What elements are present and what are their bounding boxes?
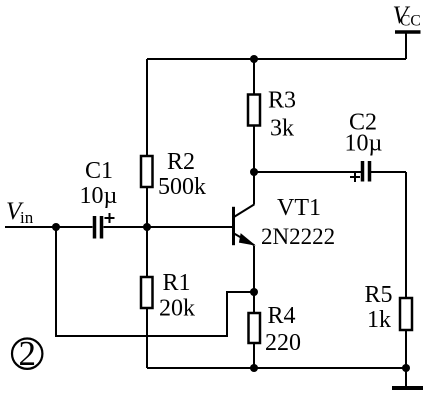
wire top rail VCC <box>147 58 406 60</box>
svg-text:500k: 500k <box>158 174 206 200</box>
node emitter bottom junction <box>250 364 258 372</box>
wire input base line <box>5 226 93 228</box>
svg-text:220: 220 <box>265 330 301 356</box>
ground <box>392 386 423 390</box>
svg-text:2N2222: 2N2222 <box>261 224 335 249</box>
resistor R4 <box>249 313 261 343</box>
wire bottom rail <box>147 367 406 369</box>
wire right branch R5 vertical <box>405 172 407 368</box>
svg-text:R1: R1 <box>163 270 191 296</box>
svg-text:10µ: 10µ <box>80 183 118 209</box>
resistor R3 <box>248 95 260 126</box>
svg-text:CC: CC <box>400 13 421 30</box>
svg-text:1k: 1k <box>367 307 391 333</box>
capacitor C1 plus sign <box>105 213 115 223</box>
svg-text:R5: R5 <box>365 282 393 308</box>
svg-text:in: in <box>20 208 34 227</box>
capacitor C2 plus sign <box>350 172 360 182</box>
wire R3 collector branch <box>253 59 255 204</box>
capacitor C1 <box>95 216 102 239</box>
svg-text:10µ: 10µ <box>345 131 383 157</box>
resistor R2 <box>141 156 153 187</box>
resistor R5 <box>400 298 412 330</box>
wire base line after C1 <box>104 226 234 228</box>
svg-text:R2: R2 <box>167 149 195 175</box>
wire VCC stub <box>405 32 407 59</box>
svg-text:C1: C1 <box>85 158 113 184</box>
node top rail / R3 junction <box>250 55 258 63</box>
svg-text:R4: R4 <box>268 303 296 329</box>
transistor Q1 VT1 <box>234 204 255 245</box>
node R5 ground junction <box>402 364 410 372</box>
resistor R1 <box>141 277 153 308</box>
wire emitter branch R4 <box>253 246 255 368</box>
capacitor C2 <box>363 161 370 182</box>
node collector junction <box>250 168 258 176</box>
node emitter junction <box>250 288 258 296</box>
svg-text:3k: 3k <box>270 116 294 142</box>
svg-text:2: 2 <box>18 334 36 373</box>
wire ground stub <box>405 368 407 387</box>
svg-text:R3: R3 <box>268 88 296 114</box>
wire feedback loop <box>56 227 254 336</box>
svg-text:20k: 20k <box>159 296 195 322</box>
figure number circle 2 <box>12 339 42 369</box>
VCC terminal bar <box>395 30 421 33</box>
wire left branch R2/R1 vertical <box>146 59 148 368</box>
node input junction <box>52 223 60 231</box>
svg-text:VT1: VT1 <box>277 195 321 221</box>
wire C2 to R5 <box>371 171 406 173</box>
wire C2 output line <box>254 171 361 173</box>
node base junction <box>143 223 151 231</box>
